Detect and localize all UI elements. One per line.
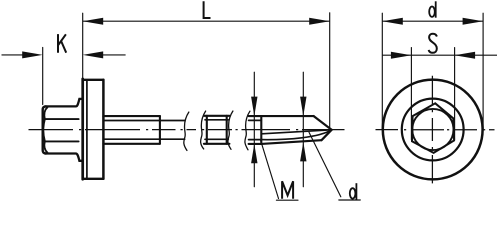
thread section B crest top: [204, 115, 230, 117]
dimension M shaft: [253, 72, 255, 187]
end view vertical centerline: [431, 76, 433, 184]
thread section B root bottom: [205, 138, 228, 140]
point section end vertical: [260, 116, 262, 144]
label d underline: [339, 199, 361, 201]
leader d: [309, 132, 341, 197]
dimension L line: [83, 20, 330, 22]
point section root top: [249, 119, 262, 121]
dimension d2 arrowheads: [300, 97, 306, 162]
dimension d arrowheads: [382, 18, 483, 25]
flange top edge: [83, 79, 104, 81]
drill point bottom taper: [261, 140, 321, 144]
end view horizontal centerline: [376, 129, 495, 131]
end view hexagon: [412, 103, 454, 153]
thread section B root top: [205, 119, 228, 121]
dimension d2 shaft: [302, 72, 304, 187]
hex head top edge with skirt curve: [45, 99, 83, 107]
drill point top cone: [314, 116, 332, 130]
hex head end face: [43, 106, 46, 153]
end view outer circle: [383, 80, 483, 180]
point section root bottom: [249, 139, 262, 141]
point section crest bottom: [249, 143, 262, 145]
shank root line bottom: [103, 138, 184, 140]
drill point bottom cone: [322, 130, 332, 140]
flange left edge: [81, 79, 84, 179]
break squiggle 2: [201, 111, 206, 149]
break squiggle 3: [228, 111, 233, 149]
label M underline: [276, 199, 298, 201]
flange right edge: [102, 80, 105, 179]
flange inner line: [86, 80, 88, 179]
point section crest top: [249, 115, 314, 117]
hex chamfer arc bottom: [44, 141, 47, 152]
label S: [429, 34, 437, 53]
dimension K lines: [2, 54, 126, 56]
L extension line right: [329, 13, 331, 128]
drill point flute upper line: [262, 130, 332, 134]
dimension d top line: [382, 20, 483, 22]
S extension line right: [454, 48, 456, 140]
hex chamfer arc middle: [43, 119, 45, 141]
K extension line left: [42, 47, 44, 104]
hex head bottom edge with skirt curve: [45, 154, 83, 161]
thread section B crest bottom: [204, 143, 230, 145]
thread section B left vertical: [206, 116, 208, 144]
flange bottom edge: [83, 178, 104, 180]
label L: [204, 1, 211, 18]
shank root line top: [103, 120, 184, 122]
leader M: [260, 140, 278, 199]
L extension line left (shared with K): [82, 13, 84, 78]
end view chamfer circle: [412, 109, 453, 150]
dimension S arrowheads: [391, 52, 475, 59]
end view flange rim circle: [402, 99, 464, 161]
break squiggle 1: [184, 112, 189, 150]
label d: [350, 183, 357, 199]
S extension line left: [410, 48, 412, 140]
d extension line right: [482, 13, 484, 129]
label d top: [429, 1, 436, 17]
dimension K arrowheads: [22, 51, 103, 58]
hex face boundary line lower: [45, 140, 79, 142]
label K: [58, 34, 66, 53]
break squiggle 4: [245, 111, 250, 150]
d extension line left: [381, 13, 383, 129]
thread section A crest bottom: [103, 143, 159, 145]
drill point flute lower line: [261, 130, 331, 140]
dimension S line: [382, 54, 497, 56]
thread section A crest top: [103, 115, 159, 117]
dimension L arrowheads: [83, 18, 330, 25]
dimension M arrowheads: [251, 97, 257, 164]
thread section A end vertical: [159, 116, 161, 144]
hex chamfer arc top: [44, 107, 47, 119]
hex face boundary line upper: [45, 118, 79, 120]
wire centerline side view: [29, 129, 345, 131]
label M: [282, 181, 293, 199]
thread section B right vertical: [226, 116, 228, 144]
